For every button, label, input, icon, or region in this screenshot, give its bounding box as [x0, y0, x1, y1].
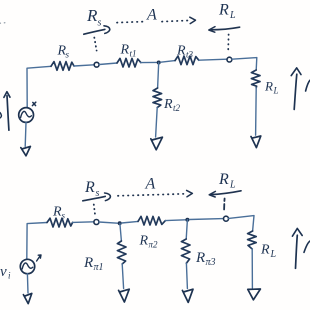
- svg-text:R: R: [120, 43, 130, 58]
- wire: Vi to ground: [26, 274, 29, 293]
- wire: J1 down to Rt2: [158, 63, 159, 89]
- label Rs (bandwidth annotation, bottom): [84, 179, 100, 199]
- svg-text:L: L: [229, 10, 236, 21]
- svg-text:π2: π2: [149, 240, 159, 250]
- junction J1b: [118, 221, 122, 225]
- ground (top RL): [251, 136, 261, 148]
- dotted arrow to RL (bottom): [118, 190, 192, 196]
- label RS (component, bottom): [52, 205, 66, 221]
- plus mark of Vi: [37, 255, 41, 261]
- label Vi: [0, 264, 11, 281]
- label vo (cut off, right edge, bottom): [304, 241, 310, 252]
- resistor Rt2: [153, 88, 162, 108]
- svg-text:π1: π1: [94, 262, 104, 273]
- wire: Rpi3 to ground: [186, 263, 187, 288]
- svg-text:R: R: [83, 255, 93, 271]
- label RL (component, top): [264, 79, 279, 96]
- resistor RL (bottom load): [248, 231, 257, 249]
- svg-text:R: R: [52, 205, 62, 220]
- svg-text:s: s: [98, 18, 102, 29]
- ground (Rpi3): [182, 289, 193, 302]
- label Rt2: [163, 97, 181, 113]
- svg-text:R: R: [218, 171, 229, 188]
- wire: Rt3 to node B2: [199, 59, 227, 60]
- label Rt3: [176, 44, 194, 60]
- svg-text:A: A: [146, 7, 157, 24]
- resistor RL (top load): [251, 70, 260, 88]
- svg-text:R: R: [163, 97, 173, 112]
- wire: J2b down to Rpi3: [186, 220, 187, 239]
- wire: node B2b to RL (bottom): [229, 216, 254, 231]
- dotted guide below Rs arrow (bottom): [94, 205, 96, 218]
- svg-text:π3: π3: [206, 257, 216, 268]
- wire: Rs to node B1b: [73, 221, 94, 224]
- svg-text:i: i: [8, 271, 11, 281]
- node B1b (open terminal): [94, 220, 99, 225]
- arrow vo (bottom output voltage): [292, 228, 302, 268]
- svg-text:R: R: [139, 234, 149, 249]
- wire: Rpi2 to junction J2b: [165, 219, 185, 222]
- node B2b (open terminal): [224, 216, 229, 221]
- wire: node B1b to junction J1b: [99, 222, 118, 223]
- resistor Rpi2: [138, 216, 165, 225]
- wire: source top to Rs: [27, 66, 51, 107]
- arrow left under RL label: [209, 27, 240, 33]
- arrow right under Rs label: [84, 29, 105, 34]
- resistor Rpi3: [181, 239, 190, 263]
- ground (Vi): [23, 293, 31, 303]
- label Rpi3: [195, 250, 216, 268]
- source V1 (top sine source): [19, 108, 34, 123]
- svg-text:L: L: [270, 249, 277, 260]
- junction J2b: [185, 218, 189, 222]
- label Rpi1: [83, 255, 104, 273]
- label RS (component, top): [57, 44, 70, 60]
- stray dots top-left edge: [0, 22, 6, 25]
- svg-text:R: R: [260, 243, 270, 258]
- wire: node B2 to RL top: [232, 58, 257, 70]
- svg-text:R: R: [195, 250, 205, 266]
- label Rt1: [120, 43, 137, 59]
- wire: J1b to Rpi2: [122, 221, 138, 223]
- wire: J2b to node B2b: [190, 218, 224, 221]
- resistor Rpi1: [117, 241, 126, 264]
- svg-text:t2: t2: [173, 103, 181, 113]
- label vi (cut off, left edge): [0, 113, 1, 118]
- wire: RL to ground (bottom): [251, 249, 253, 288]
- svg-text:R: R: [84, 179, 95, 196]
- svg-text:s: s: [66, 50, 70, 60]
- label Rs (bandwidth annotation, top): [86, 6, 102, 29]
- svg-text:R: R: [264, 79, 273, 94]
- svg-text:A: A: [145, 176, 156, 193]
- arrow vo (top output voltage): [291, 68, 301, 110]
- junction J1: [157, 61, 161, 65]
- label Rpi2: [139, 234, 159, 250]
- svg-text:L: L: [229, 180, 236, 191]
- arrow left under RL label (bottom): [209, 191, 241, 197]
- svg-text:t1: t1: [130, 49, 137, 59]
- plus mark of V1: [32, 102, 35, 105]
- wire: RL to ground: [255, 88, 258, 135]
- label RL (component, bottom): [260, 243, 277, 261]
- label RL (annotation, top): [218, 2, 236, 22]
- dashed guide below RL arrow (bottom): [223, 199, 226, 210]
- wire: Rt2 to ground: [156, 108, 158, 137]
- resistor Rt1: [117, 58, 141, 67]
- ground (Rpi1): [119, 289, 130, 302]
- resistor RS (top series): [51, 62, 74, 71]
- svg-text:R: R: [218, 2, 229, 19]
- svg-text:R: R: [86, 6, 98, 25]
- wire: node B1 to Rt1: [99, 63, 117, 65]
- ground (bottom RL): [248, 289, 261, 300]
- source Vi (bottom sine source): [20, 259, 34, 273]
- wire: J1b down to Rpi1: [120, 224, 122, 242]
- svg-text:L: L: [273, 86, 279, 96]
- wire: source Vi top to Rs (bottom): [27, 223, 47, 260]
- svg-text:v: v: [0, 264, 7, 280]
- wire: J1 to Rt3: [161, 61, 175, 63]
- dotted guide below Rs arrow: [94, 38, 96, 51]
- wire: Rs to node B1: [74, 65, 94, 66]
- node B2 (open terminal): [227, 57, 232, 62]
- arrow right under Rs label (bottom): [83, 196, 105, 200]
- ground (Rt2): [151, 137, 163, 150]
- label vo (cut off, right edge, top): [306, 80, 310, 91]
- resistor RS (bottom series): [47, 218, 73, 227]
- dotted arrow from A to RL: [162, 17, 196, 23]
- wire: Rpi1 to ground: [122, 264, 123, 289]
- node B1 (open terminal): [94, 62, 99, 67]
- label RL (annotation, bottom): [218, 171, 236, 191]
- resistor Rt3: [175, 56, 199, 65]
- arrow vi (top input voltage): [4, 92, 10, 131]
- svg-text:s: s: [62, 211, 66, 221]
- dotted guide below RL arrow: [227, 35, 229, 52]
- wire: V1 to ground: [24, 122, 27, 146]
- dotted line to A: [117, 22, 144, 23]
- wire: Rt1 to junction J1: [141, 61, 157, 63]
- ground (V1): [21, 146, 31, 155]
